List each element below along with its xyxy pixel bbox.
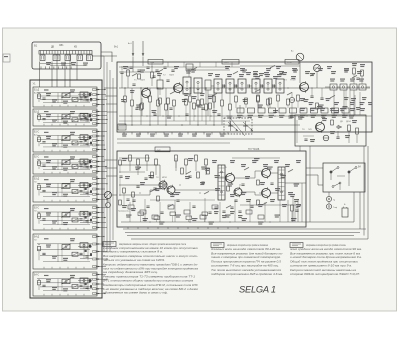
- Б3-С cluster cap 2: [85, 220, 88, 222]
- svg-text:Ан: Ан: [291, 50, 293, 53]
- bus wire A: [103, 56, 105, 252]
- Б4-С cluster wires: [78, 280, 92, 282]
- Б4-Д long wires: [37, 243, 92, 245]
- Б4-С inner vertical: [57, 279, 59, 291]
- bus wire B: [106, 62, 108, 252]
- slanted label marks AF: [136, 167, 141, 170]
- bus wire C: [109, 70, 111, 252]
- supply rail wire: [119, 115, 372, 117]
- wire jack to signal: [299, 61, 301, 83]
- Б3-Д cluster cap 1: [79, 189, 82, 191]
- Б1-Д value labels: [46, 93, 51, 94]
- Б3-Д trimmer: [72, 190, 78, 194]
- svg-text:Громкость: Громкость: [118, 211, 130, 213]
- svg-text:Полоса пропускания тракта ПЧ н: Полоса пропускания тракта ПЧ на уровне 0…: [211, 260, 282, 264]
- Б3-Д left capacitor: [42, 189, 45, 191]
- coil module Б4-С box: [33, 272, 97, 296]
- transistor Т4 preamp: [159, 181, 167, 189]
- Т2 bias network: [167, 98, 170, 104]
- Б1-Д cluster cap 2: [85, 98, 88, 100]
- Б2-С left capacitor: [42, 164, 45, 166]
- Б3-С core arrow: [61, 212, 71, 218]
- Б1-Д trimmer: [72, 97, 78, 101]
- Б2-Д cluster wires: [78, 114, 92, 116]
- Б2-С cluster wires: [78, 160, 92, 162]
- bus junction dots: [104, 89, 105, 90]
- diode Д10: [323, 135, 329, 141]
- Б3-Д cluster cap 2: [85, 191, 88, 193]
- svg-text:тания и измерены при комнатной: тания и измерены при комнатной температу…: [211, 255, 281, 259]
- Б4-Д value labels: [46, 245, 51, 246]
- Б2-С cluster blobs: [89, 160, 91, 163]
- power box extra: [296, 120, 298, 143]
- Б4-С trimmer: [72, 284, 78, 288]
- AGC diode: [289, 97, 294, 102]
- svg-text:В1: В1: [34, 43, 38, 47]
- svg-text:сигнала не превышает 8-10 ма п: сигнала не превышает 8-10 ма при 9 в.: [290, 264, 352, 268]
- switch inner wires: [40, 63, 72, 65]
- RF upper components: [129, 66, 132, 68]
- Б4-Д inner vertical: [57, 244, 59, 262]
- svg-text:Тлф: Тлф: [333, 206, 337, 209]
- AF input wires: [119, 165, 160, 181]
- svg-text:Б4-С: Б4-С: [34, 274, 40, 276]
- svg-text:Б1-Д: Б1-Д: [34, 89, 40, 91]
- AF mid-bottom parts: [214, 206, 217, 208]
- pin ticks under RF board: [123, 132, 125, 135]
- svg-text:длинных волн на входе смесител: длинных волн на входе смесителя 80-120 м…: [211, 247, 281, 251]
- note column 3 marker: [290, 243, 303, 248]
- mixer resistor forest: [185, 99, 188, 105]
- power value labels: [330, 131, 335, 132]
- extra junction dots RF: [131, 116, 132, 117]
- Б4-С cluster blobs: [89, 279, 91, 282]
- piezo filter cans: [214, 79, 222, 93]
- AF caps: [132, 199, 135, 201]
- power drop wires: [333, 90, 335, 116]
- svg-text:на середину диапазона 465 кгц.: на середину диапазона 465 кгц.: [103, 270, 158, 274]
- Б4-Д cluster cap 2: [85, 255, 88, 257]
- svg-text:Б2-Д: Б2-Д: [34, 111, 40, 113]
- svg-text:Все напряжения указаны при ток: Все напряжения указаны при токе покоя 6 …: [290, 251, 361, 255]
- coil L2: [53, 55, 60, 61]
- wire jack drops: [328, 192, 330, 196]
- right column verticals: [349, 90, 351, 115]
- output transformer Тр2: [278, 167, 285, 200]
- svg-text:SELGA 1: SELGA 1: [239, 285, 277, 295]
- AF resistors lower: [128, 205, 134, 209]
- Б2-С coil 1: [62, 160, 70, 165]
- svg-text:Все напряжения измерены относи: Все напряжения измерены относительно шас…: [103, 254, 198, 258]
- wire switch drop 5: [69, 54, 71, 87]
- Б4-С bottom ticks: [43, 294, 45, 296]
- svg-text:УВЧ: УВЧ: [150, 62, 155, 64]
- Б2-Д cluster cap 2: [85, 119, 88, 121]
- Б4-С long wires: [37, 278, 92, 280]
- Б3-С cluster cap 1: [79, 218, 82, 220]
- svg-text:и не менее указанных в таблице: и не менее указанных в таблице величин; …: [103, 287, 199, 291]
- svg-text:Б4-Д: Б4-Д: [34, 236, 40, 238]
- Б1-С core arrow: [61, 135, 71, 141]
- AF cluster outputs: [257, 180, 260, 185]
- wire switch drop 3: [56, 54, 58, 87]
- slanted label marks RF: [132, 73, 137, 76]
- Б1-С cluster cap 2: [85, 142, 88, 144]
- switch contact 1: [330, 171, 332, 173]
- svg-text:Общий ток покоя приёмника при: Общий ток покоя приёмника при отсутствии: [290, 260, 359, 264]
- RF hanging resistors: [124, 96, 127, 102]
- switch contact 3: [339, 182, 341, 184]
- wire AF right drops: [301, 183, 303, 222]
- RF value labels: [121, 99, 126, 100]
- RF-IF board outline: [117, 62, 372, 132]
- main signal wire: [119, 87, 370, 89]
- Б2-С left resistor: [38, 161, 41, 166]
- svg-text:Напряжение гетеродина при приё: Напряжение гетеродина при приёме в диапа…: [227, 243, 268, 247]
- IF stage dots: [239, 87, 240, 88]
- svg-text:Ант: Ант: [34, 91, 38, 94]
- Б4-С cluster cap 1: [79, 284, 82, 286]
- Б3-Д cluster blobs: [89, 184, 91, 187]
- AF feedback wire: [285, 182, 306, 184]
- Б2-С long wires: [37, 159, 92, 161]
- coil L1: [40, 55, 45, 61]
- Б3-Д cluster wires: [78, 184, 92, 186]
- Б2-С bottom ticks: [43, 172, 45, 174]
- svg-text:подбором сопротивления R28 в п: подбором сопротивления R28 в пределах 4-…: [211, 272, 283, 276]
- svg-text:Все напряжения указаны для нов: Все напряжения указаны для новой батареи…: [211, 251, 283, 255]
- filter coupling caps: [222, 84, 224, 87]
- svg-text:чаться от указанных на схеме н: чаться от указанных на схеме на ±20%.: [103, 258, 165, 262]
- AF driver wires: [175, 189, 218, 191]
- IF bottom resistor row: [237, 108, 244, 113]
- Б3-С cluster wires: [78, 213, 92, 215]
- AF extra labels: [125, 176, 130, 177]
- right return wires: [306, 192, 354, 222]
- Б1-С long wires: [37, 134, 92, 136]
- external antenna arrow 2: [142, 41, 144, 56]
- AF value smudges: [122, 158, 128, 159]
- AF lower middle parts: [138, 212, 144, 216]
- Б1-Д left capacitor: [42, 97, 45, 99]
- svg-text:и новой батарее типа Крона нап: и новой батарее типа Крона напряжением 9…: [290, 255, 362, 259]
- Б3-Д core arrow: [61, 183, 71, 189]
- Б4-С coil 1: [62, 279, 70, 284]
- Б4-Д trimmer: [72, 252, 78, 256]
- svg-text:Б1-С: Б1-С: [34, 131, 40, 133]
- Б3-Д cluster coil: [80, 183, 88, 188]
- Б4-Д cluster wires: [78, 246, 92, 248]
- right column labels: [344, 97, 349, 98]
- svg-text:Гет: Гет: [34, 181, 37, 183]
- svg-text:Т8 ГТ402Б: Т8 ГТ402Б: [248, 149, 260, 151]
- rectifier row: [330, 84, 337, 90]
- note column 2 marker: [211, 243, 224, 248]
- wire power to AF column: [309, 146, 311, 222]
- bus to board stubs: [104, 87, 117, 89]
- secondary rail wire: [119, 120, 250, 122]
- svg-text:Катушки магнитной антенны намо: Катушки магнитной антенны намотаны на: [290, 268, 357, 272]
- Б4-С left resistor: [38, 280, 41, 285]
- svg-text:УПЧ: УПЧ: [287, 62, 292, 64]
- detector diode Д2: [314, 65, 321, 72]
- svg-text:ВЧ-1 относительно общего прово: ВЧ-1 относительно общего провода при отс…: [103, 279, 194, 283]
- coil module Б3-Д box: [33, 176, 97, 202]
- Б3-С trimmer: [72, 218, 78, 222]
- Б1-Д coil 1: [62, 93, 70, 98]
- gang link wire: [230, 118, 245, 136]
- Б2-С value labels: [46, 160, 51, 161]
- RF top drops: [151, 62, 153, 67]
- AF resistors upper: [129, 155, 132, 161]
- coil L4: [77, 55, 83, 61]
- T2 load parts: [186, 64, 193, 69]
- Б4-С left capacitor: [42, 284, 45, 286]
- Т1 emitter resistor: [141, 103, 144, 109]
- coil L3: [65, 55, 71, 61]
- Б3-Д value labels: [46, 184, 51, 185]
- Б4-Д cluster cap 1: [79, 252, 82, 254]
- tuning capacitor С1-2 dashed block: [224, 118, 252, 134]
- Б1-С left resistor: [38, 137, 41, 142]
- coil L5: [87, 55, 93, 61]
- Б3-С long wires: [37, 211, 92, 213]
- AF vertical drops: [129, 202, 131, 222]
- Б3-С cluster coil: [80, 211, 88, 216]
- Б1-Д inner vertical: [57, 93, 59, 103]
- AF extra components: [151, 172, 154, 178]
- svg-text:Вч1: Вч1: [114, 46, 119, 49]
- band switch В1 box: [32, 42, 101, 69]
- Б1-Д cluster wires: [78, 93, 92, 95]
- svg-text:ДВ: ДВ: [51, 47, 55, 49]
- Б1-С bottom ticks: [43, 150, 45, 152]
- Б3-С bottom ticks: [43, 228, 45, 230]
- Б2-Д value labels: [46, 114, 51, 115]
- Б1-Д bottom ticks: [43, 105, 45, 107]
- bus wire D: [112, 78, 114, 240]
- Б2-Д left resistor: [38, 115, 41, 120]
- Б2-С cluster coil: [80, 159, 88, 164]
- page edge mark: [3, 54, 10, 62]
- wire antenna to board: [132, 57, 134, 73]
- external antenna arrow 1: [132, 41, 134, 56]
- Б4-С cluster coil: [80, 278, 88, 283]
- wire switch drop 2: [51, 62, 53, 88]
- T1 area parts: [132, 83, 135, 85]
- Б2-С core arrow: [61, 159, 71, 165]
- svg-text:СВ1: СВ1: [59, 45, 64, 47]
- wire switch drop 4: [64, 62, 66, 88]
- Б4-Д core arrow: [61, 244, 71, 250]
- coil module Б3-С box: [33, 205, 97, 230]
- jack Гн2: [326, 196, 331, 201]
- variable cap 2: [243, 122, 253, 131]
- switch wires inside: [337, 175, 345, 177]
- coil unit stub wires: [98, 89, 106, 91]
- Б1-С coil 1: [62, 136, 70, 141]
- wire switch drop 6: [76, 62, 78, 81]
- svg-text:Напряжения измерены относ. общ: Напряжения измерены относ. общего провод…: [119, 242, 186, 246]
- svg-text:Режимы транзисторов Т1-Т3 изме: Режимы транзисторов Т1-Т3 измерены прибо…: [103, 275, 196, 279]
- output transistor Т8: [262, 189, 271, 198]
- switch ticks bottom: [40, 66, 42, 69]
- AF cluster around T4: [153, 187, 156, 189]
- svg-text:пуск по индуктивности ±5% при: пуск по индуктивности ±5% при настройке …: [103, 266, 199, 270]
- input resistor R1: [127, 70, 130, 76]
- Б1-Д core arrow: [61, 92, 71, 98]
- svg-text:Смес: Смес: [224, 62, 230, 64]
- Б4-Д bottom ticks: [43, 267, 45, 269]
- svg-text:Катушки индуктивности намотаны: Катушки индуктивности намотаны проводом …: [103, 263, 198, 267]
- pin ticks under AF board: [127, 227, 129, 229]
- wire to RF board: [92, 55, 117, 57]
- svg-text:составляет 7-8 кгц при настрой: составляет 7-8 кгц при настройке на 465 …: [211, 264, 279, 268]
- RF junction dots: [124, 87, 125, 88]
- wires AF to В4: [306, 167, 323, 169]
- RF extra labels right: [300, 98, 305, 99]
- Б1-С cluster blobs: [89, 136, 91, 139]
- output transistor Т7: [262, 169, 271, 178]
- svg-text:обозначения на схеме даны в ом: обозначения на схеме даны в омах и пф.: [103, 291, 168, 295]
- svg-text:с входным сопротивлением не ме: с входным сопротивлением не менее 10 ком…: [103, 246, 199, 250]
- svg-text:Б2-С: Б2-С: [34, 156, 40, 158]
- svg-text:Ток покоя выходного каскада ус: Ток покоя выходного каскада устанавливае…: [211, 268, 282, 272]
- AF bottom rail wires: [121, 221, 306, 223]
- svg-text:КВ: КВ: [74, 47, 77, 49]
- Б1-Д left resistor: [38, 94, 41, 99]
- speaker wires: [287, 200, 289, 222]
- detector parts: [310, 95, 313, 97]
- AF left-bottom parts: [123, 188, 126, 193]
- IF transformer Ф1: [183, 77, 191, 94]
- AGC bus wire: [119, 124, 300, 126]
- Б2-Д coil 1: [62, 114, 70, 119]
- Б4-Д coil 1: [62, 245, 70, 250]
- Б4-Д left capacitor: [42, 252, 45, 254]
- mid wires between boards: [117, 138, 265, 140]
- Б2-Д core arrow: [61, 113, 71, 119]
- Б3-Д bottom ticks: [43, 200, 45, 202]
- mid smudges: [122, 134, 127, 135]
- AF board outline: [117, 151, 306, 227]
- svg-text:Б3-Д: Б3-Д: [34, 178, 40, 180]
- switch value labels: [46, 62, 51, 63]
- Б2-С trimmer: [72, 164, 78, 168]
- svg-text:Гет: Гет: [34, 210, 37, 212]
- svg-text:Конденсаторы подстроечные типа: Конденсаторы подстроечные типа КПК-М, ос…: [103, 283, 198, 287]
- coil module Б1-С box: [33, 129, 97, 152]
- Б4-Д cluster coil: [80, 243, 88, 248]
- rail junction dots: [149, 221, 150, 222]
- Б3-С cluster blobs: [89, 213, 91, 216]
- heterodyne coil box: [205, 80, 211, 90]
- AF output wires: [270, 172, 278, 174]
- section label box Смеситель: [222, 60, 239, 65]
- jack Гн1: [296, 53, 304, 61]
- Т1 collector load: [151, 72, 154, 78]
- svg-text:Напряжения гетеродина при приё: Напряжения гетеродина при приёме в диапа…: [306, 243, 346, 247]
- misc RF pocket labels: [246, 72, 251, 73]
- jack Гн3: [326, 204, 331, 209]
- wire to RF board 2: [101, 52, 112, 62]
- right edge parts: [353, 68, 356, 74]
- Б1-С left capacitor: [42, 141, 45, 143]
- svg-text:Б3-С: Б3-С: [34, 207, 40, 209]
- switch contact bar: [39, 51, 92, 55]
- tone network: [291, 205, 294, 211]
- note column 1 marker: [103, 242, 116, 247]
- power section box: [295, 115, 366, 146]
- Б1-Д cluster cap 1: [79, 97, 82, 99]
- Б3-С value labels: [46, 213, 51, 214]
- RF top bus wire: [119, 66, 240, 68]
- Б1-С inner vertical: [57, 135, 59, 147]
- Б1-С cluster coil: [80, 135, 88, 140]
- Б2-Д long wires: [37, 113, 92, 115]
- Б1-Д cluster blobs: [89, 93, 91, 96]
- Б1-С cluster cap 1: [79, 141, 82, 143]
- Б4-С core arrow: [61, 278, 71, 284]
- Б3-С left capacitor: [42, 218, 45, 220]
- Б3-Д long wires: [37, 182, 92, 184]
- Б4-Д left resistor: [38, 246, 41, 251]
- coil module Б2-Д box: [33, 109, 97, 126]
- zener diode symbol: [336, 126, 342, 128]
- Б4-Д cluster blobs: [89, 245, 91, 248]
- Б1-С trimmer: [72, 141, 78, 145]
- switch В4 box: [323, 163, 365, 192]
- wire detector: [316, 72, 318, 89]
- Б2-Д left capacitor: [42, 117, 45, 119]
- Б2-Д trimmer: [72, 118, 78, 122]
- Б4-С cluster cap 2: [85, 286, 88, 288]
- Б2-С cluster cap 2: [85, 165, 88, 167]
- misc AF pocket labels: [246, 199, 251, 200]
- volume control: [105, 192, 112, 199]
- Б2-С inner vertical: [57, 160, 59, 170]
- coil module Б4-Д box: [33, 234, 97, 269]
- oscillator section wires: [208, 95, 214, 108]
- IF amp lower parts: [257, 95, 260, 101]
- capacitor С52: [336, 136, 339, 138]
- svg-text:сигнала и напряжении питания 9: сигнала и напряжении питания 9 в.: [103, 250, 163, 254]
- wire volume: [107, 199, 109, 203]
- variable cap 1: [228, 122, 238, 131]
- supply smudges: [300, 108, 305, 109]
- interstage transformer Тр1: [218, 165, 225, 200]
- extra caps row: [135, 107, 138, 109]
- choke Др1: [118, 124, 126, 130]
- Б2-С cluster cap 1: [79, 164, 82, 166]
- AF extra wires: [119, 157, 150, 159]
- Б2-Д cluster coil: [80, 113, 88, 118]
- coil unit У1 box: [30, 80, 102, 298]
- AF junction dots: [140, 193, 141, 194]
- coil module Б1-Д box: [33, 87, 97, 107]
- Б3-Д coil 1: [62, 184, 70, 189]
- svg-text:ФНЧ: ФНЧ: [157, 149, 162, 152]
- svg-text:Гет: Гет: [34, 239, 37, 241]
- AF cluster around T5: [227, 186, 230, 191]
- power resistors: [348, 125, 351, 131]
- transistor Т5а: [234, 188, 242, 196]
- Б1-Д cluster coil: [80, 92, 88, 97]
- AF filter box: [155, 147, 170, 152]
- RF upper wires: [119, 71, 160, 73]
- switch contact 2: [348, 171, 350, 173]
- section label box УПЧ: [285, 60, 299, 65]
